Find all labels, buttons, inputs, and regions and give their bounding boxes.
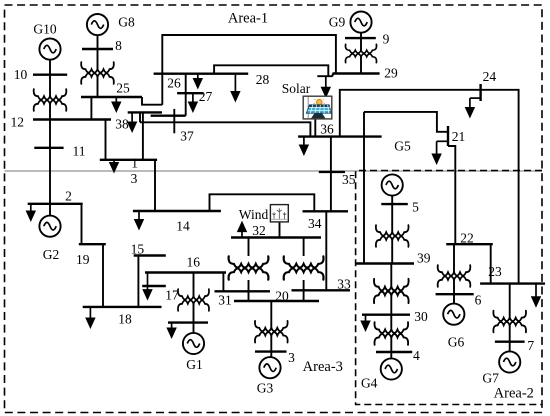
bus 9 xyxy=(345,37,376,39)
svg-text:24: 24 xyxy=(483,69,497,84)
bus 36 xyxy=(298,135,382,137)
load arrow bus 17 xyxy=(144,273,152,299)
wire top 26-29 xyxy=(162,35,336,105)
svg-text:6: 6 xyxy=(475,293,482,308)
area divider line (Area-1 / Area-3 boundary) xyxy=(5,170,543,172)
svg-text:3: 3 xyxy=(288,350,295,365)
bus 10 xyxy=(33,73,67,75)
svg-text:8: 8 xyxy=(115,38,122,53)
wire 25 step xyxy=(142,97,162,105)
load arrow bus 2 xyxy=(27,204,35,220)
load arrow bus 1 xyxy=(168,323,176,337)
bus 20 xyxy=(234,300,319,302)
load arrow bus 28 xyxy=(232,74,240,101)
wire G4 mid xyxy=(390,294,392,331)
bus 31 xyxy=(215,290,271,292)
Area-2 dashed boundary xyxy=(356,171,542,405)
bus 1 bar xyxy=(168,321,208,323)
bus 14 xyxy=(133,210,221,212)
wire 25-12 xyxy=(90,97,92,120)
generator G2 xyxy=(39,216,60,237)
svg-text:27: 27 xyxy=(199,89,213,104)
bus 11 xyxy=(34,147,63,149)
svg-text:26: 26 xyxy=(167,76,181,91)
load arrow bus 23 xyxy=(532,284,540,306)
bus 38 xyxy=(128,111,162,113)
generator G7 xyxy=(499,351,520,372)
bus 4 xyxy=(376,351,412,353)
wire 34-33 xyxy=(325,211,327,290)
wire 35-34 xyxy=(330,137,332,212)
generator G10 xyxy=(39,39,60,60)
generator G9 xyxy=(350,12,371,33)
wire 3-14 xyxy=(154,160,156,211)
bus 35 xyxy=(319,171,345,173)
generator G5 xyxy=(382,174,403,195)
wire 14 riser xyxy=(210,194,315,211)
svg-text:12: 12 xyxy=(11,115,25,130)
bus 26-28 bar xyxy=(154,72,249,74)
bus 29 xyxy=(333,72,380,74)
svg-text:G7: G7 xyxy=(482,371,499,386)
svg-text:Area-3: Area-3 xyxy=(303,359,343,375)
wire G8 stem lower xyxy=(97,76,99,97)
wire 38-3 xyxy=(142,112,144,159)
load arrow bus 26 xyxy=(194,74,202,88)
bus 5 xyxy=(381,203,408,205)
svg-text:G2: G2 xyxy=(43,247,60,262)
transformer T4b (bus30-4) xyxy=(374,322,408,345)
svg-text:14: 14 xyxy=(176,219,190,234)
generator G6 xyxy=(443,304,464,325)
transformer T-wind-left xyxy=(229,256,269,280)
solar icon box xyxy=(303,96,332,119)
svg-text:23: 23 xyxy=(488,264,502,279)
wire B 36-21 xyxy=(364,112,448,132)
transformer T8 (bus8-25) xyxy=(81,62,114,84)
bus 23 xyxy=(480,282,545,284)
svg-text:7: 7 xyxy=(527,338,534,353)
svg-text:31: 31 xyxy=(218,293,232,308)
svg-text:3: 3 xyxy=(131,171,138,186)
node 37 tick xyxy=(173,109,175,133)
load arrow bus 36 xyxy=(300,137,308,154)
svg-text:G4: G4 xyxy=(361,376,378,391)
transformer T-wind-right xyxy=(284,256,324,280)
svg-text:38: 38 xyxy=(115,117,129,132)
svg-text:37: 37 xyxy=(180,129,194,144)
generator G4 xyxy=(381,358,402,379)
bus 3 bar G3 xyxy=(255,350,287,352)
load arrow solar (29 to solar box) xyxy=(322,76,330,96)
wire G10 column lower xyxy=(49,104,51,204)
svg-text:19: 19 xyxy=(76,252,90,267)
wire xfmr-20 right xyxy=(303,280,305,301)
bus 15 xyxy=(134,254,166,256)
svg-text:36: 36 xyxy=(320,122,334,137)
wire G9 stem lower xyxy=(360,56,362,74)
wire G4 stem lower xyxy=(390,337,392,359)
injection arrow bus 32 (up) xyxy=(238,223,246,238)
wire G6 stem lower xyxy=(453,279,455,303)
bus 3 xyxy=(100,159,157,161)
svg-text:2: 2 xyxy=(65,189,72,204)
svg-text:G8: G8 xyxy=(118,15,135,30)
svg-text:33: 33 xyxy=(337,277,351,292)
wire G8 stem upper xyxy=(97,35,99,70)
load arrow bus 27 xyxy=(189,93,197,111)
wire C 36-24-23 xyxy=(340,90,519,284)
svg-text:28: 28 xyxy=(256,72,270,87)
generator G1 xyxy=(183,333,204,354)
svg-text:22: 22 xyxy=(460,231,474,246)
transformer T9 (bus9-29) xyxy=(345,44,376,62)
bus 39 xyxy=(356,262,414,264)
load arrow bus 21 xyxy=(433,141,448,163)
wire G4 stem 39-30 xyxy=(390,264,392,289)
wire G3 stem upper xyxy=(270,301,272,329)
bus 12 xyxy=(33,118,111,120)
wire 26-37 xyxy=(185,74,187,116)
wire G7 stem lower xyxy=(509,325,511,351)
wire G1 stem upper xyxy=(193,273,195,298)
wire 19-18 xyxy=(102,244,104,307)
wire wind box stem xyxy=(279,222,281,238)
load arrow bus 3 xyxy=(110,160,118,172)
bus 22 xyxy=(446,243,493,245)
wire solar stem xyxy=(314,119,316,137)
svg-text:1: 1 xyxy=(131,156,138,171)
svg-text:35: 35 xyxy=(342,172,356,187)
svg-text:34: 34 xyxy=(308,216,322,231)
load arrow bus 38 xyxy=(128,112,136,131)
wire G5 xfmr-39 xyxy=(391,239,393,264)
generator G3 xyxy=(259,357,280,378)
wire 12-3 xyxy=(105,120,107,160)
svg-text:Area-2: Area-2 xyxy=(494,386,534,402)
bus 8 xyxy=(82,48,113,50)
load arrow bus 30 xyxy=(362,315,370,330)
svg-text:G3: G3 xyxy=(257,380,274,395)
bus 16 xyxy=(145,271,226,273)
svg-text:4: 4 xyxy=(413,348,420,363)
wire G6 stem upper xyxy=(453,244,455,273)
bus 7 xyxy=(495,341,525,343)
svg-text:30: 30 xyxy=(414,309,428,324)
svg-text:39: 39 xyxy=(417,251,431,266)
wire 32-xfmr left xyxy=(248,238,250,257)
svg-text:25: 25 xyxy=(116,81,130,96)
load arrow bus 24 xyxy=(466,98,481,116)
bus 17 xyxy=(142,285,166,287)
load arrow bus 25 xyxy=(112,97,120,111)
wire G1 stem lower xyxy=(193,303,195,333)
wire 16-31 xyxy=(222,273,224,292)
svg-text:G6: G6 xyxy=(448,335,465,350)
transformer T7 (bus23-7) xyxy=(493,311,526,333)
svg-text:16: 16 xyxy=(186,255,200,270)
wire G7 stem upper xyxy=(509,284,511,319)
svg-text:29: 29 xyxy=(384,66,398,81)
svg-text:17: 17 xyxy=(165,288,179,303)
wire G2 stem xyxy=(49,204,51,216)
wire 32-xfmr right xyxy=(303,238,305,257)
bus 18 xyxy=(83,306,162,308)
transformer T4a (bus39-30) xyxy=(374,279,409,303)
svg-text:Area-1: Area-1 xyxy=(228,11,268,27)
bus 32 xyxy=(231,236,321,238)
wire G5 stem xyxy=(391,196,393,233)
svg-text:15: 15 xyxy=(131,242,145,257)
load arrow bus 14 xyxy=(135,211,143,229)
transformer T3 (bus20-3) xyxy=(255,321,288,343)
bus 34 xyxy=(303,210,349,212)
bus 21 xyxy=(447,126,449,146)
svg-text:Solar: Solar xyxy=(282,81,311,96)
svg-text:32: 32 xyxy=(252,223,266,238)
wire G3 stem lower xyxy=(270,335,272,357)
transformer T5 (bus5-39) xyxy=(376,225,409,247)
svg-text:G1: G1 xyxy=(186,357,203,372)
bus 19 xyxy=(79,243,106,245)
wind icon box xyxy=(270,205,288,222)
svg-text:G10: G10 xyxy=(33,22,56,37)
wire 21-22 xyxy=(448,146,455,244)
transformer T6 (bus22-6) xyxy=(438,265,471,287)
transformer T1 (bus16-1) xyxy=(178,289,209,311)
bus 6 xyxy=(436,293,474,295)
svg-text:18: 18 xyxy=(118,312,132,327)
wire G9 stem upper xyxy=(360,33,362,51)
svg-text:G9: G9 xyxy=(329,15,346,30)
wire 2-19 xyxy=(81,204,83,244)
transformer T10 (bus10-12) xyxy=(34,89,67,111)
svg-text:20: 20 xyxy=(275,289,289,304)
load arrow bus 18 xyxy=(87,307,95,327)
wire 36-39 xyxy=(363,112,365,264)
wire 15-18 xyxy=(137,256,139,307)
bus 33 xyxy=(292,289,351,291)
svg-text:21: 21 xyxy=(452,129,466,144)
generator G8 xyxy=(87,14,108,35)
svg-text:10: 10 xyxy=(14,67,28,82)
bus 37 xyxy=(151,114,186,116)
wire xfmr-20 left xyxy=(248,280,250,301)
bus 30 xyxy=(362,314,410,316)
bus 27 xyxy=(177,92,203,94)
svg-text:9: 9 xyxy=(383,32,390,47)
svg-text:Wind: Wind xyxy=(239,207,269,222)
bus 24 xyxy=(479,84,481,101)
svg-text:5: 5 xyxy=(412,200,419,215)
wire G10 stem upper xyxy=(49,60,51,97)
wire 28-29 xyxy=(214,65,333,76)
svg-text:11: 11 xyxy=(73,144,86,159)
svg-text:G5: G5 xyxy=(394,139,411,154)
bus 2 xyxy=(28,203,83,205)
wire 38-36 xyxy=(140,112,310,136)
bus 25 xyxy=(81,96,142,98)
wire 22-23 xyxy=(490,244,492,283)
